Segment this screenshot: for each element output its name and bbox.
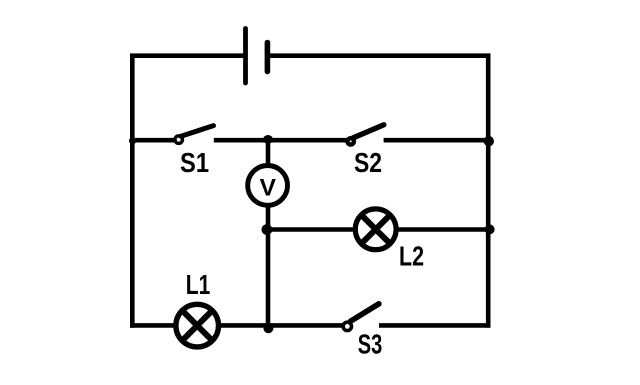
wire: middle row, left branch to S1 — [130, 138, 175, 143]
node: L2 row to right branch junction — [485, 224, 495, 234]
wire: right vertical branch — [486, 54, 491, 328]
wire: voltmeter branch vertical — [266, 140, 271, 325]
svg-text:S2: S2 — [354, 147, 382, 178]
voltmeter U1 — [248, 166, 288, 206]
wire: middle row, S1 contact to S2 pivot — [214, 138, 347, 143]
node: voltmeter branch to L2 row junction — [262, 224, 273, 235]
node: S1/S2 row to voltmeter branch junction — [263, 135, 273, 144]
wire: lamp L2 row, L2 to right branch — [398, 227, 491, 232]
wire: left vertical branch — [130, 54, 135, 328]
wire: bottom row, left branch to L1 — [130, 323, 174, 328]
switch S1 — [175, 126, 214, 144]
svg-text:V: V — [260, 174, 277, 201]
wire: top row right segment (battery - to right branch) — [267, 53, 490, 58]
svg-text:L2: L2 — [399, 241, 424, 272]
node: S2 row to right branch junction — [484, 136, 494, 146]
lamp L2 — [355, 209, 396, 250]
node: voltmeter branch to bottom row junction — [263, 323, 273, 333]
wire: top row left segment (to battery +) — [130, 53, 245, 58]
wire: bottom row, S3 contact to right branch — [379, 323, 491, 328]
switch S2 — [348, 125, 384, 145]
lamp L1 — [176, 304, 219, 347]
wire: middle row, S2 contact to right branch — [384, 138, 489, 143]
node: left branch to S1 row junction — [129, 137, 136, 144]
svg-text:L1: L1 — [186, 269, 211, 300]
wire: lamp L2 row, from node to L2 — [268, 227, 354, 232]
svg-text:S1: S1 — [180, 147, 209, 178]
switch S3 — [343, 304, 379, 331]
svg-text:S3: S3 — [358, 329, 383, 360]
battery BT1 — [246, 29, 268, 84]
wire: bottom row, L1 to S3 pivot — [220, 323, 343, 328]
